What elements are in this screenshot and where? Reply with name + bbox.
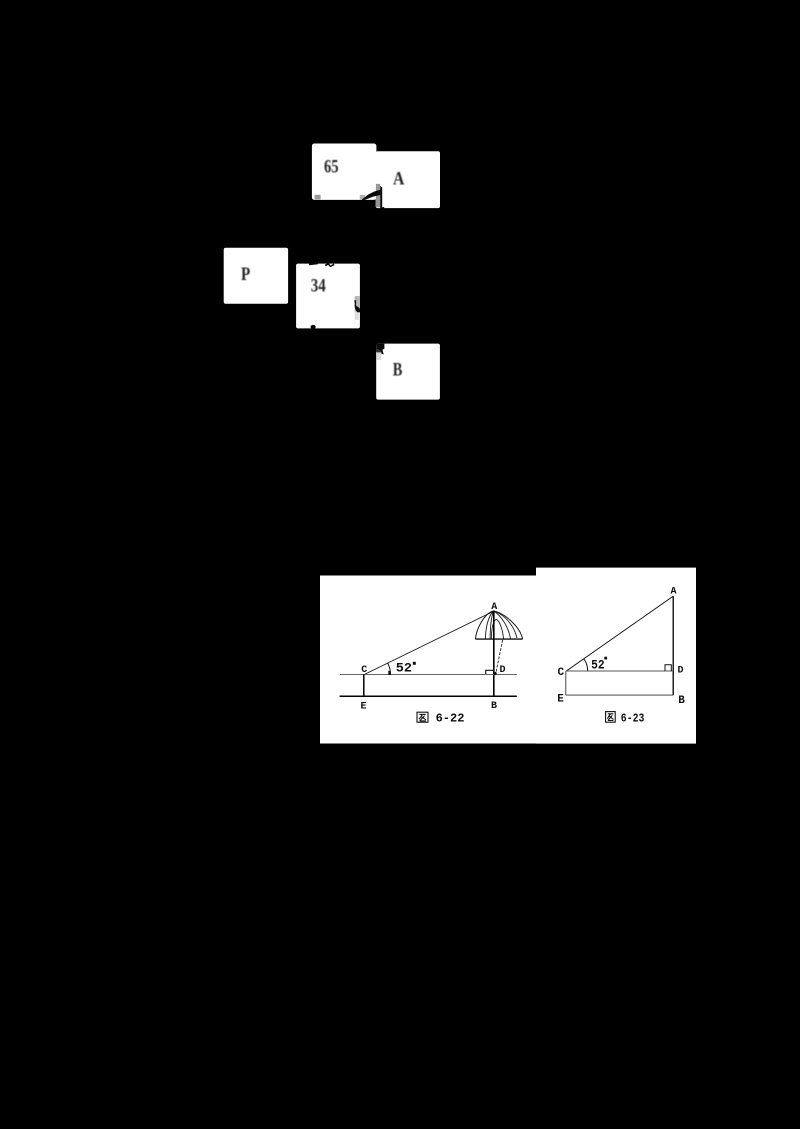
svg-text:6-22: 6-22 [436,712,465,726]
svg-text:B: B [491,701,497,712]
callout box B [376,344,440,400]
svg-text:B: B [393,361,403,381]
angle arc at C (fig 6-23) [584,659,588,671]
svg-text:65: 65 [324,158,339,178]
white panel figure 6-23 [536,568,696,744]
svg-text:D: D [678,665,684,676]
svg-text:E: E [557,694,564,706]
line EB (fig 6-23) [566,694,673,696]
umbrella rib left inner [490,611,494,639]
ink dash on top edge of box 34 [309,262,318,265]
line CE (fig 6-22) [363,674,365,696]
ink check mark on top edge of box 34 [325,263,334,268]
support line to D (fig 6-22) [496,640,502,672]
right angle mark at D (fig 6-22) [486,670,494,674]
svg-text:A: A [671,586,677,597]
callout box 34 [296,264,360,329]
gray patch right edge of box 34 [355,296,360,312]
svg-text:B: B [678,695,685,707]
umbrella rib left outer [485,611,493,639]
line AB vertical (fig 6-23) [672,596,674,695]
svg-text:E: E [361,702,367,713]
caption glyph tu (fig 6-23) [606,712,616,723]
umbrella baseline [475,638,522,640]
ink dot on bottom edge of box 34 [311,325,316,329]
trunk AB (fig 6-22) [493,611,495,696]
right angle mark at D (fig 6-23) [665,665,671,671]
black edge line right of gray bar [380,186,384,209]
ink hook on right edge of box 34 [354,300,360,313]
callout box A [376,151,440,208]
line CA (fig 6-22) [365,611,494,674]
umbrella inner arch [491,619,503,638]
junction dot at D (fig 6-22) [493,672,497,676]
callout box P [224,248,288,304]
gray notch bottom-left of box 65 [315,195,321,200]
caption glyph tu (fig 6-22) [417,712,428,722]
angle arc at C (fig 6-22) [388,663,391,675]
svg-text:6-23: 6-23 [621,712,645,726]
svg-text:P: P [241,265,250,285]
svg-text:C: C [558,667,565,679]
gray patch below flag on box B [376,352,381,360]
gray notch bottom-right of box 65 [360,195,365,199]
svg-text:52: 52 [396,661,412,675]
ground line EB (fig 6-22) [340,695,517,697]
umbrella canopy outline [475,611,522,639]
line CA (fig 6-23) [567,596,674,671]
umbrella rib right inner [494,611,511,639]
line CD (fig 6-23) [566,670,673,672]
svg-text:A: A [393,169,405,189]
gray bar between box 65 and box A [376,184,380,207]
ink flag mark top-left of box B [376,344,384,357]
black swoosh mark under box 65 / box A [361,190,380,201]
white panel figure 6-22 [320,576,542,744]
umbrella rib right outer [494,611,517,638]
svg-text:52: 52 [591,658,605,672]
line CE (fig 6-23) [565,671,567,695]
callout box 65 [312,144,377,200]
line CD (fig 6-22) [340,674,517,676]
svg-text:C: C [361,665,367,676]
svg-text:34: 34 [311,276,326,296]
